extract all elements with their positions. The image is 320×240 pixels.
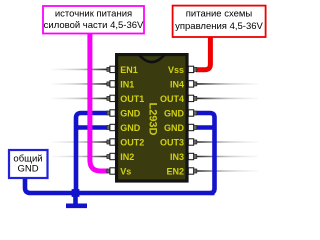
svg-text:силовой части 4,5-36V: силовой части 4,5-36V (44, 20, 144, 31)
wire lead pin3 OUT1 (52, 97, 107, 99)
svg-text:GND: GND (120, 123, 141, 133)
wire lead pin1 EN1 (52, 68, 107, 70)
wire lead pin14 OUT4 (197, 97, 258, 99)
wire GND left pin5 (76, 125, 108, 130)
svg-text:IN2: IN2 (120, 152, 134, 162)
junction bus-ground (72, 189, 80, 197)
svg-text:OUT3: OUT3 (160, 137, 184, 147)
svg-text:GND: GND (164, 108, 185, 118)
pin 10 IN3 (188, 153, 197, 159)
wire Vs magenta (90, 34, 108, 171)
wire lead pin10 IN3 (197, 156, 258, 158)
wire lead pin11 OUT3 (197, 141, 258, 143)
pin 9 EN2 (188, 168, 197, 174)
pin 3 OUT1 (107, 95, 115, 101)
wire GND left pin4 to vertical (76, 113, 108, 191)
svg-text:L293D: L293D (146, 102, 158, 135)
svg-text:EN1: EN1 (120, 65, 138, 75)
wire GND right pin13 to vertical (196, 113, 215, 193)
pin 1 EN1 (107, 66, 115, 72)
svg-text:GND: GND (120, 108, 141, 118)
pin 16 Vss (188, 66, 197, 72)
pin 15 IN4 (188, 81, 197, 87)
svg-text:источник питания: источник питания (55, 9, 132, 20)
pin 13 GND (188, 110, 197, 116)
wire lead pin2 IN1 (52, 83, 107, 85)
svg-text:EN2: EN2 (166, 166, 184, 176)
IC notch (139, 55, 165, 62)
wire lead pin9 EN2 (197, 170, 258, 172)
pin 8 Vs (107, 168, 115, 174)
wire lead pin15 IN4 (197, 83, 258, 85)
label box power source (magenta) (43, 6, 144, 34)
wire GND bus bottom (25, 178, 215, 193)
svg-text:OUT1: OUT1 (120, 94, 144, 104)
svg-text:Vs: Vs (120, 166, 131, 176)
pin 5 GND (107, 124, 115, 130)
svg-text:GND: GND (17, 163, 38, 174)
svg-text:IN4: IN4 (170, 79, 184, 89)
svg-text:IN3: IN3 (170, 152, 184, 162)
pin 4 GND (107, 110, 115, 116)
pin 7 IN2 (107, 153, 115, 159)
svg-text:OUT2: OUT2 (120, 137, 144, 147)
pin 12 GND (188, 124, 197, 130)
label box common GND (blue) (9, 150, 48, 178)
wire lead pin7 IN2 (52, 156, 107, 158)
svg-text:питание схемы: питание схемы (186, 8, 253, 19)
wire lead pin6 OUT2 (52, 141, 107, 143)
wire Vss red (196, 37, 210, 70)
pin 14 OUT4 (188, 95, 197, 101)
svg-text:IN1: IN1 (120, 79, 134, 89)
pin 2 IN1 (107, 81, 115, 87)
pin 11 OUT3 (188, 139, 197, 145)
IC U1 L293D body (117, 55, 187, 181)
ground symbol (73, 193, 78, 204)
pin 6 OUT2 (107, 139, 115, 145)
svg-text:GND: GND (164, 123, 185, 133)
svg-text:Vss: Vss (168, 65, 184, 75)
label box control power (red) (173, 6, 266, 37)
svg-text:OUT4: OUT4 (160, 94, 184, 104)
wire GND right pin12 (196, 125, 215, 130)
svg-text:управления 4,5-36V: управления 4,5-36V (175, 21, 263, 32)
